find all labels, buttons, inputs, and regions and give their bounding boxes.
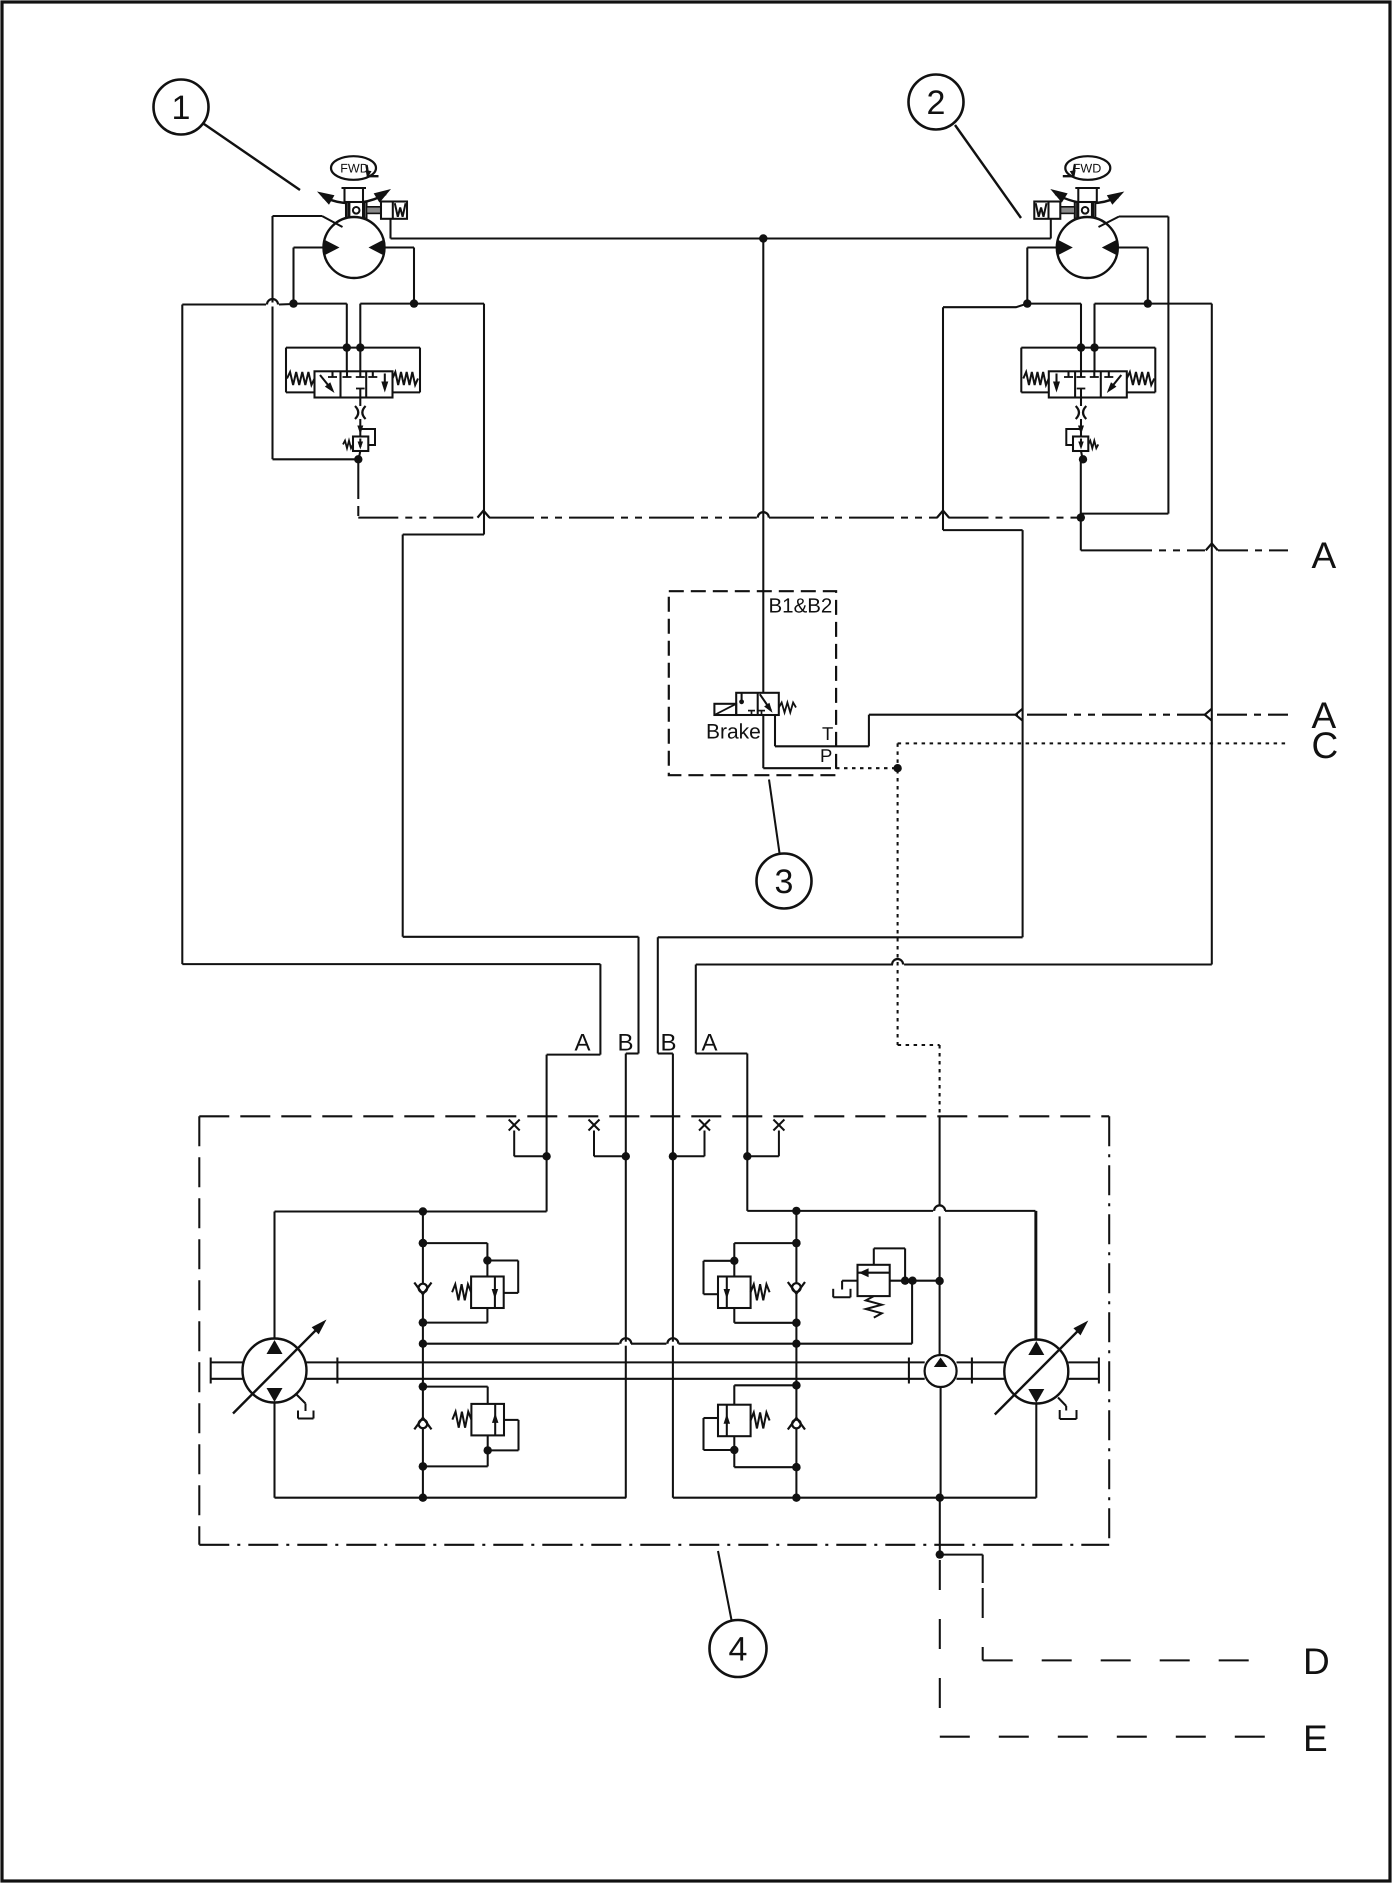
svg-text:C: C (1312, 725, 1339, 766)
svg-text:FWD: FWD (1073, 162, 1101, 176)
svg-text:B: B (618, 1030, 634, 1057)
svg-text:E: E (1303, 1718, 1328, 1759)
svg-text:A: A (702, 1030, 718, 1057)
svg-text:1: 1 (172, 89, 191, 127)
svg-text:D: D (1303, 1641, 1330, 1682)
svg-text:2: 2 (927, 84, 946, 122)
svg-text:FWD: FWD (340, 162, 368, 176)
svg-text:A: A (1312, 535, 1337, 576)
svg-text:4: 4 (729, 1631, 748, 1669)
svg-text:Brake: Brake (706, 721, 761, 744)
svg-text:A: A (575, 1030, 591, 1057)
svg-text:3: 3 (775, 863, 794, 901)
svg-text:B: B (661, 1030, 677, 1057)
svg-text:P: P (820, 745, 832, 766)
svg-text:T: T (822, 723, 833, 744)
svg-text:B1&B2: B1&B2 (769, 595, 833, 618)
